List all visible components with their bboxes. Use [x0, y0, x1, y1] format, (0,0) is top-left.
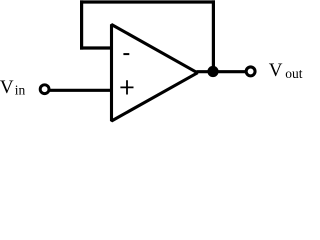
wire input: [49, 89, 112, 92]
wire feedback top horizontal: [80, 0, 215, 3]
svg-text:out: out: [285, 66, 303, 81]
wire output: [197, 70, 246, 73]
junction output node (solder dot): [207, 66, 218, 77]
terminal output (open circle): [246, 67, 255, 76]
wire feedback left vertical: [80, 0, 83, 49]
label "-" inverting input pin: [123, 53, 129, 55]
label "+" non-inverting input pin: [120, 80, 133, 94]
wire feedback stub into inverting input: [80, 46, 112, 49]
svg-text:V: V: [0, 77, 14, 98]
svg-text:V: V: [269, 60, 283, 81]
op-amp U1: [112, 25, 198, 122]
terminal input (open circle): [40, 85, 49, 94]
svg-text:in: in: [15, 83, 26, 98]
wire feedback right vertical (to output node): [212, 0, 215, 71]
